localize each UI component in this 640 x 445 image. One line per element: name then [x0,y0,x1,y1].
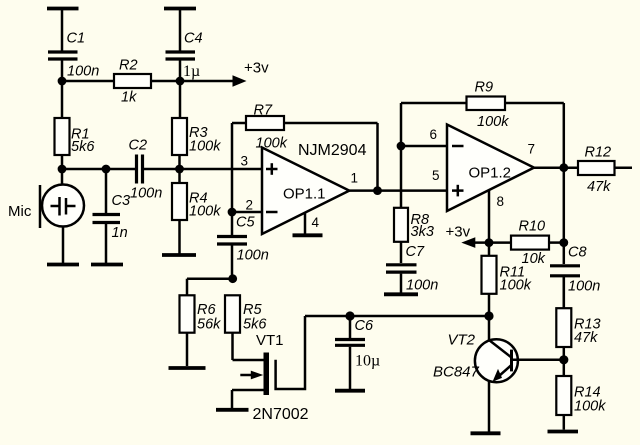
node C3 [102,165,111,174]
wire node to R1 [61,81,64,118]
svg-text:+3v: +3v [446,224,471,241]
wire C6 rail [305,315,489,318]
svg-text:47k: 47k [574,330,598,346]
svg-text:100k: 100k [189,139,221,155]
wire node to R6 [187,277,233,280]
node C4/R2/R3 [176,77,185,86]
ground (C7) [384,292,418,296]
svg-text:VT1: VT1 [256,332,284,349]
ground (mic) [47,263,79,267]
ground (R6) [169,366,206,370]
resistor R13 [556,277,571,376]
wire pin2 feedback vertical [231,123,234,212]
capacitor C7 [386,265,417,293]
capacitor C2 [137,155,263,184]
svg-text:R10: R10 [519,219,546,235]
op-amp U1b OP1.2 [447,125,534,212]
svg-text:OP1.1: OP1.1 [283,186,326,203]
ground (R4) [162,253,196,257]
node C6 [345,311,354,320]
ground (VT2 emitter) [471,431,501,435]
node R3/R4 [175,165,184,174]
ground (C3) [91,263,123,267]
ground top (above C4) [164,9,196,52]
svg-text:100n: 100n [237,248,269,264]
svg-text:10k: 10k [522,251,546,267]
resistor R10 [511,236,564,250]
wire opamp2 output [534,166,578,169]
node pin6 [397,142,406,151]
node R10/C8 [559,238,568,247]
svg-text:C7: C7 [406,244,425,260]
svg-text:100k: 100k [574,399,606,415]
svg-text:5k6: 5k6 [71,139,95,155]
resistor R4 [172,169,187,254]
node pin2/C5 [228,208,237,217]
svg-text:100n: 100n [568,279,600,295]
resistor R14 [556,376,571,430]
ground (R14) [548,430,579,434]
svg-text:3k3: 3k3 [411,224,434,240]
svg-text:VT2: VT2 [448,332,476,349]
svg-text:100k: 100k [256,136,288,152]
resistor R5 [225,295,240,360]
svg-text:7: 7 [528,142,536,157]
svg-text:1k: 1k [121,90,137,106]
svg-text:C5: C5 [236,215,255,231]
node R13/R14/VT2 base [559,355,568,364]
svg-text:100k: 100k [189,204,221,220]
ground (VT1 source) [216,408,249,412]
wire mic stem [61,169,64,185]
pin 4 ground of OP1.1 [293,213,323,235]
svg-text:5: 5 [432,168,440,183]
svg-text:5k6: 5k6 [243,317,267,333]
svg-text:R9: R9 [475,80,494,96]
wire pin6 [401,145,447,148]
capacitor C3 [93,169,121,263]
svg-text:100n: 100n [67,64,99,80]
transistor VT1 (2N7002 MOSFET) [232,316,305,408]
wire R3 branch [179,81,182,118]
svg-text:4: 4 [312,215,320,230]
wire pin2 to opamp [232,211,262,214]
svg-text:8: 8 [497,194,505,209]
node R6/R5 [228,274,237,283]
svg-text:1n: 1n [112,225,128,241]
svg-text:C6: C6 [355,318,374,334]
resistor R2 [114,74,180,88]
wire pin8 [488,190,491,243]
resistor R6 [180,279,195,366]
svg-text:100n: 100n [406,278,438,294]
wire node to R2 [62,80,114,83]
transistor VT2 (BC847) [475,316,564,432]
wire to +3v arrow [180,80,234,83]
node pin8/R10/R11 [485,238,494,247]
svg-text:56k: 56k [197,317,221,333]
microphone Mic [40,185,84,264]
capacitor C8 [550,266,580,308]
wire opamp1 output [349,189,447,192]
svg-text:2: 2 [246,198,254,213]
resistor R1 [55,118,70,169]
node top-left (C1/R2/R1) [58,77,67,86]
resistor R3 [172,118,187,169]
svg-text:6: 6 [430,127,438,142]
svg-text:Mic: Mic [8,203,32,220]
node output OP1.2 [559,163,568,172]
resistor R9 [401,97,564,168]
svg-text:R12: R12 [585,145,612,161]
svg-text:2N7002: 2N7002 [253,406,309,423]
capacitor C4 [166,52,196,81]
svg-text:3: 3 [241,154,249,169]
svg-text:100k: 100k [477,114,509,130]
svg-text:+3v: +3v [244,60,269,77]
svg-text:C8: C8 [568,245,587,261]
svg-text:C2: C2 [129,138,148,154]
svg-text:C1: C1 [67,31,86,47]
svg-text:OP1.2: OP1.2 [469,165,512,182]
node output OP1.1 [373,186,382,195]
resistor R7 [232,116,378,191]
svg-text:NJM2904: NJM2904 [298,142,367,159]
node mic/R1 [58,165,67,174]
svg-text:10µ: 10µ [355,353,380,370]
svg-text:47k: 47k [587,179,611,195]
resistor R8 [394,208,408,263]
resistor R11 [482,243,497,316]
svg-text:100k: 100k [500,278,532,294]
capacitor C5 [217,212,247,279]
svg-text:1: 1 [351,171,359,186]
wire C8 branch [563,168,566,264]
+3v arrow (top) [233,75,247,87]
ground (C6) [335,389,365,393]
svg-text:BC847: BC847 [433,364,480,381]
+3v arrow (middle) [461,237,475,248]
capacitor C1 [48,52,78,81]
node R11/VT2 collector [484,311,493,320]
capacitor C6 [335,316,365,389]
svg-text:C4: C4 [184,31,203,47]
svg-text:100n: 100n [130,186,162,202]
svg-text:C3: C3 [112,193,131,209]
resistor R12 [578,161,632,175]
svg-text:R7: R7 [254,103,273,119]
op-amp U1a OP1.1 [262,148,349,235]
wire main input rail [62,168,136,171]
svg-text:1µ: 1µ [183,63,200,80]
wire +3v rail [474,241,511,244]
ground top-left (above C1) [47,9,79,52]
svg-text:R2: R2 [119,58,138,74]
wire R8/R9 left vertical [400,103,403,208]
